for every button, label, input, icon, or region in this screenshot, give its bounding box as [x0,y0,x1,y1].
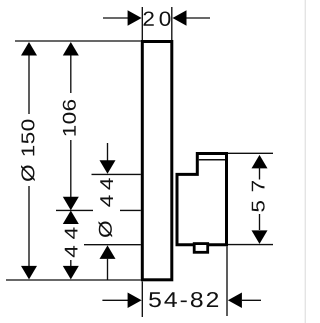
extension line below handle right edge [226,246,228,316]
dim 106 line lower [70,140,72,198]
dim 54-82 right tail [242,299,261,301]
extension line handle bottom left [84,244,141,246]
dim 57 line lower [259,214,261,230]
halo for O44 label [93,176,120,240]
dim O44 down arrowhead [100,160,116,174]
dim 20 right tail [186,17,211,19]
extension line above plate right edge [171,7,173,40]
dim O44 line top [107,143,109,162]
label 20 [2 0] span=26.9 ls=-1.22 ink_h=14.5 [144,11,171,26]
dim O150 line upper [28,44,30,114]
dim O150 top arrowhead [21,42,37,56]
extension line tab top right [228,152,273,154]
dim 44 line lower [70,260,72,267]
label 44U [4 4] span=28.5 ls=-0.85 ink_h=12.7 [100,178,113,207]
extension line handle bottom right [228,244,273,246]
bowtie lower arrowhead [63,211,79,225]
label O150 [Ø 150] span=61.5 ls=0.42 ink_h=13.7 [21,120,35,181]
extension line above plate left edge [141,7,143,40]
label 5482 [54-82] span=69.0 ls=2.00 ink_h=15.2 [149,292,218,307]
bottom stem tab [194,244,208,253]
escutcheon plate [142,42,172,280]
dim 54-82 right arrowhead [228,293,242,309]
extension line below plate left edge [141,282,143,318]
extension line top-left [15,40,141,42]
dim 106 line upper [70,44,72,93]
dim O44 up arrowhead [100,245,116,259]
label O44 [Ø] span=16.0 ls=0.00 ink_h=13.7 [98,221,112,237]
dim 20 right arrowhead [173,10,187,26]
label 44L [4 4] span=29.7 ls=-0.25 ink_h=12.7 [65,228,78,258]
dim 54-82 left tail [102,299,128,301]
dim 44 bottom arrowhead [63,266,79,280]
dim O150 line lower [28,186,30,277]
extension line handle top left [92,173,141,175]
label 106 [106] span=35.7 ls=0.38 ink_h=13.1 [63,100,76,136]
dim O150 bottom arrowhead [21,266,37,280]
dim 106 top arrowhead [63,42,79,56]
extension line chain 106/44 [56,209,141,211]
dim 57 line upper [259,167,261,180]
label 57 [5 7] span=30.7 ls=0.68 ink_h=12.9 [252,181,265,212]
dim 57 down arrowhead [252,230,268,244]
dim 20 left arrowhead [128,10,142,26]
dim 57 up arrowhead [252,155,268,169]
handle body with top tab [177,154,227,245]
bowtie upper arrowhead [63,197,79,211]
tab inner line [199,159,225,161]
dim 20 left tail [103,17,129,19]
dim O44 line bottom [107,258,109,280]
extension line bottom-left [6,279,141,281]
dim 54-82 left arrowhead [128,293,142,309]
right border strip [305,0,306,323]
